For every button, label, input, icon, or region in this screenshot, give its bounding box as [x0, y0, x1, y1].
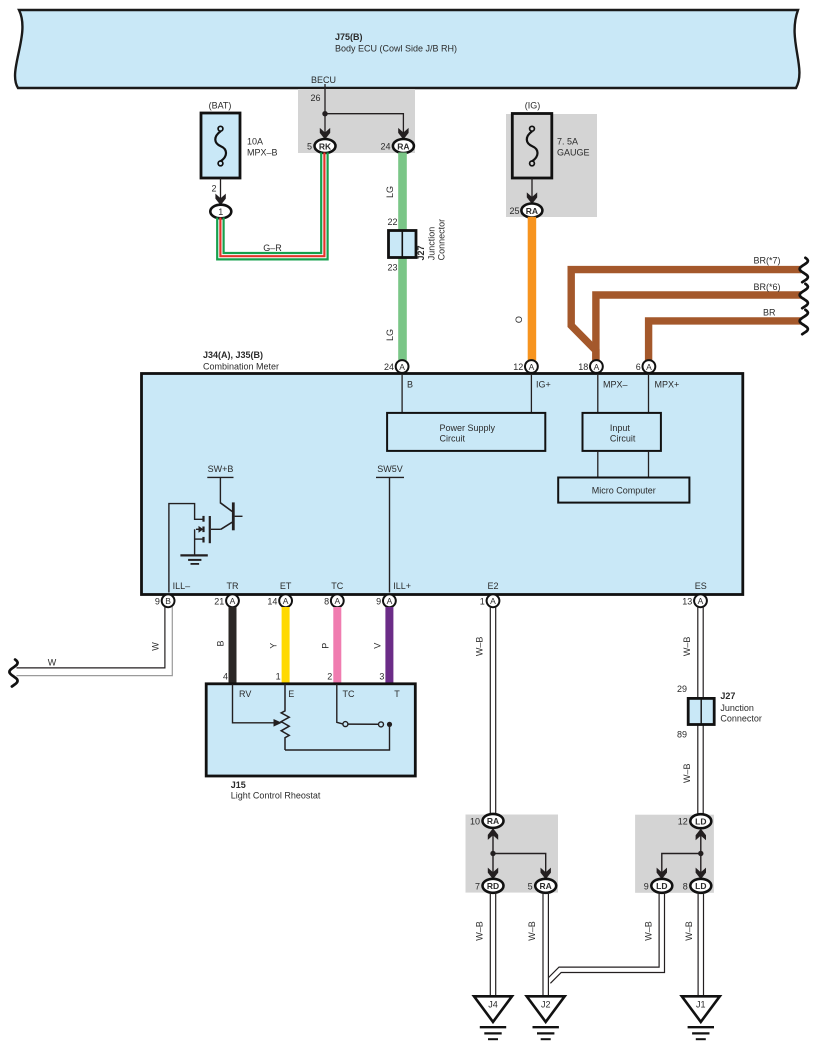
wire W-B (8 LD to J1)	[698, 892, 703, 996]
svg-text:21: 21	[214, 596, 224, 606]
pin 1 label J15	[276, 672, 281, 682]
wire RV to wiper	[233, 684, 275, 723]
svg-text:W–B: W–B	[474, 921, 484, 941]
svg-text:12: 12	[513, 362, 523, 372]
arrow down to 9 LD	[657, 868, 667, 880]
svg-text:A: A	[334, 596, 340, 606]
ground J2	[527, 996, 565, 1039]
svg-text:W–B: W–B	[527, 921, 537, 941]
net label E	[288, 689, 294, 699]
svg-text:5: 5	[528, 881, 533, 891]
gray box (E2 splice)	[466, 815, 559, 893]
junction connector J27 (mid)	[389, 231, 417, 258]
svg-text:Junction: Junction	[720, 703, 754, 713]
ECU band J75(B)	[15, 10, 799, 88]
svg-text:J27: J27	[416, 245, 426, 260]
wire SW5V to ILL+	[389, 477, 391, 592]
svg-text:A: A	[230, 596, 236, 606]
break squiggle BR(*7)	[800, 258, 808, 282]
svg-text:RK: RK	[319, 141, 332, 151]
svg-text:RD: RD	[487, 881, 499, 891]
transistor Q (MOSFET)	[195, 516, 210, 543]
svg-text:25: 25	[509, 206, 519, 216]
pin 9 LD oval	[644, 879, 673, 893]
pin 9 A circle (ILL+)	[376, 594, 396, 607]
label J27 (ES)	[720, 691, 762, 723]
wire splice ES	[662, 829, 701, 879]
arrow up (E2 splice)	[488, 828, 498, 840]
svg-text:RV: RV	[239, 689, 251, 699]
pin 8 A circle	[324, 594, 344, 607]
arrow up (ES splice)	[696, 829, 706, 841]
label BR(*7)	[753, 255, 780, 265]
label J75(B) Body ECU	[335, 32, 457, 54]
pin 12 LD oval	[678, 814, 712, 828]
label O	[514, 316, 524, 323]
svg-text:RA: RA	[397, 141, 409, 151]
wire pin18 to Input Circuit	[597, 375, 599, 413]
wire W (ILL- white)	[17, 607, 173, 676]
wire resistor bottom to T	[285, 727, 390, 751]
label LG lower	[385, 329, 395, 341]
value 10A MPX-B	[247, 137, 278, 158]
net label TC	[331, 581, 343, 591]
svg-text:18: 18	[578, 362, 588, 372]
svg-text:29: 29	[677, 684, 687, 694]
label Junction Connector rotated	[427, 219, 447, 261]
svg-text:24: 24	[380, 142, 390, 152]
net label ES	[695, 581, 707, 591]
svg-text:SW+B: SW+B	[208, 464, 234, 474]
svg-text:LD: LD	[695, 817, 706, 827]
wire BECU down	[324, 84, 326, 114]
arrow into RA	[398, 128, 408, 140]
junction dot (ES splice)	[698, 851, 703, 856]
svg-text:Body ECU (Cowl Side J/B RH): Body ECU (Cowl Side J/B RH)	[335, 44, 457, 54]
svg-text:ES: ES	[695, 581, 707, 591]
svg-text:IG+: IG+	[536, 380, 551, 390]
svg-text:Light Control Rheostat: Light Control Rheostat	[231, 790, 321, 800]
pin 22 label	[387, 217, 397, 227]
svg-text:1: 1	[218, 207, 223, 217]
svg-text:E2: E2	[487, 581, 498, 591]
value 7.5A GAUGE	[557, 137, 590, 158]
svg-text:26: 26	[310, 93, 320, 103]
label W horizontal	[48, 658, 57, 668]
svg-text:ET: ET	[280, 581, 292, 591]
break squiggle W	[9, 660, 17, 687]
arrow into pin 1	[215, 194, 225, 206]
resistor R (rheostat element)	[281, 684, 289, 750]
svg-text:TR: TR	[227, 581, 239, 591]
wire W-B (9 LD to J2)	[549, 892, 665, 983]
svg-text:A: A	[529, 362, 535, 372]
switch blade	[348, 723, 379, 725]
wire pin24 to Power Supply	[401, 375, 403, 413]
svg-text:BECU: BECU	[311, 75, 336, 85]
pin 1 A circle (E2)	[480, 594, 500, 607]
svg-text:G–R: G–R	[263, 243, 282, 253]
pin 14 A circle	[267, 594, 292, 607]
svg-text:10A: 10A	[247, 137, 263, 147]
pin 4 label J15	[223, 672, 228, 682]
svg-text:7. 5A: 7. 5A	[557, 137, 578, 147]
svg-text:P: P	[320, 643, 330, 649]
wire TC to switch	[337, 684, 343, 724]
pin 7 RD oval	[475, 879, 504, 893]
svg-text:SW5V: SW5V	[377, 464, 403, 474]
svg-text:A: A	[646, 362, 652, 372]
svg-text:24: 24	[384, 362, 394, 372]
label (IG)	[525, 101, 541, 111]
pin 5 RA oval	[528, 879, 557, 893]
label BR(*6)	[753, 282, 780, 292]
wire down to RK	[324, 114, 326, 140]
wire BR(*6)	[596, 295, 801, 361]
label W-B (J2)	[527, 921, 537, 941]
wire BR(*7)	[571, 270, 801, 361]
svg-text:5: 5	[307, 142, 312, 152]
svg-text:LG: LG	[385, 329, 395, 341]
svg-text:W–B: W–B	[684, 921, 694, 941]
combination meter box	[142, 374, 743, 595]
rheostat J15 box	[206, 684, 415, 776]
svg-text:J27: J27	[720, 691, 735, 701]
pin 10 RA oval	[470, 814, 504, 828]
svg-text:ILL+: ILL+	[393, 581, 411, 591]
fuse 10A MPX-B box	[201, 113, 240, 178]
svg-text:1: 1	[480, 596, 485, 606]
wire fuse to pin 2	[220, 178, 222, 205]
svg-text:J1: J1	[696, 999, 706, 1009]
pin 24 A circle	[384, 360, 409, 373]
wire branch to RA	[325, 114, 403, 140]
svg-text:Connector: Connector	[720, 713, 762, 723]
wire LG (RA to meter pin 24)	[398, 153, 407, 361]
svg-text:GAUGE: GAUGE	[557, 148, 590, 158]
wire G-R (red core)	[220, 153, 324, 257]
label P wire	[320, 643, 330, 649]
fuse MPX-B (BAT) label	[209, 101, 232, 111]
pin 8 LD oval	[683, 879, 712, 893]
break squiggle BR(*6)	[800, 284, 808, 308]
svg-text:4: 4	[223, 672, 228, 682]
net label B	[407, 380, 413, 390]
arrow down to 8 LD	[696, 868, 706, 880]
net label RV	[239, 689, 251, 699]
svg-text:Micro Computer: Micro Computer	[592, 486, 656, 496]
svg-text:(IG): (IG)	[525, 101, 541, 111]
svg-text:B: B	[216, 640, 226, 646]
pin 29 label	[677, 684, 687, 694]
Power Supply Circuit box	[387, 413, 545, 451]
switch contact left	[343, 722, 348, 727]
pin 89 label	[677, 730, 687, 740]
pin 21 A circle	[214, 594, 239, 607]
wire MOSFET source to ground	[194, 529, 196, 555]
pin 3 label J15	[379, 672, 384, 682]
switch contact right	[379, 722, 384, 727]
svg-text:W–B: W–B	[643, 921, 653, 941]
net label E2	[487, 581, 498, 591]
transistor Q (BJT)	[220, 502, 242, 530]
net label ET	[280, 581, 292, 591]
arrow into 25 RA	[527, 192, 537, 204]
svg-text:J2: J2	[541, 999, 551, 1009]
wire G-R (green outer)	[217, 153, 327, 260]
wire W-B (E2 down)	[490, 607, 495, 815]
net label IG+	[536, 380, 551, 390]
wire splice E2	[493, 829, 546, 879]
wire pin12 to Power Supply	[530, 375, 532, 413]
junction dot (E2 splice)	[490, 851, 495, 856]
label W-B (ES upper)	[682, 637, 692, 657]
svg-text:1: 1	[276, 672, 281, 682]
node SW+B	[207, 464, 233, 478]
svg-text:2: 2	[327, 672, 332, 682]
label V wire	[373, 643, 383, 649]
svg-text:BR(*7): BR(*7)	[753, 255, 780, 265]
svg-text:12: 12	[678, 817, 688, 827]
wire BR	[649, 321, 801, 361]
svg-text:Circuit: Circuit	[440, 433, 466, 443]
net label TC (J15)	[343, 689, 355, 699]
svg-text:W: W	[48, 658, 57, 668]
svg-text:E: E	[288, 689, 294, 699]
label LG upper	[385, 186, 395, 198]
label Y wire	[269, 643, 279, 649]
svg-text:Y: Y	[269, 643, 279, 649]
wire Y (yellow)	[282, 607, 290, 685]
svg-text:O: O	[514, 316, 524, 323]
svg-text:A: A	[594, 362, 600, 372]
pin 23 label	[387, 263, 397, 273]
svg-text:6: 6	[636, 362, 641, 372]
svg-text:BR: BR	[763, 308, 776, 318]
svg-text:22: 22	[387, 217, 397, 227]
ground J4	[474, 996, 512, 1039]
pin 13 A circle (ES)	[682, 594, 707, 607]
svg-text:Connector: Connector	[437, 219, 447, 261]
svg-text:7: 7	[475, 881, 480, 891]
svg-text:Power Supply: Power Supply	[440, 423, 496, 433]
svg-text:13: 13	[682, 596, 692, 606]
svg-text:Combination Meter: Combination Meter	[203, 362, 279, 372]
label J27 rotated	[416, 245, 426, 260]
svg-text:A: A	[698, 596, 704, 606]
junction connector J27 (ES)	[688, 698, 714, 724]
wire P (pink)	[333, 607, 341, 685]
junction dot	[322, 111, 327, 116]
svg-text:A: A	[283, 596, 289, 606]
svg-text:A: A	[490, 596, 496, 606]
svg-text:TC: TC	[343, 689, 355, 699]
svg-text:W–B: W–B	[682, 763, 692, 783]
svg-text:3: 3	[379, 672, 384, 682]
svg-text:B: B	[407, 380, 413, 390]
svg-text:Junction: Junction	[427, 227, 437, 261]
svg-text:LG: LG	[385, 186, 395, 198]
svg-text:ILL–: ILL–	[173, 581, 191, 591]
ground J1	[682, 996, 720, 1039]
svg-text:T: T	[394, 689, 400, 699]
svg-text:RA: RA	[540, 881, 552, 891]
net label MPX-	[603, 380, 628, 390]
svg-text:9: 9	[155, 596, 160, 606]
svg-text:J75(B): J75(B)	[335, 32, 363, 42]
svg-text:89: 89	[677, 730, 687, 740]
svg-text:W–B: W–B	[475, 637, 485, 657]
svg-text:TC: TC	[331, 581, 343, 591]
pin 1 oval	[210, 205, 231, 219]
svg-text:J4: J4	[488, 999, 498, 1009]
arrow into RK	[320, 128, 330, 140]
svg-text:(BAT): (BAT)	[209, 101, 232, 111]
label W-B (E2)	[475, 637, 485, 657]
arrow down to 7 RD	[488, 868, 498, 880]
svg-text:10: 10	[470, 816, 480, 826]
ground (meter internal)	[180, 555, 207, 564]
svg-text:W: W	[151, 642, 161, 651]
Micro Computer box	[558, 478, 689, 503]
pin 24 RA oval	[380, 139, 413, 153]
svg-text:LD: LD	[695, 881, 706, 891]
pin 6 A circle	[636, 360, 656, 373]
wire W-B (5 RA to J2)	[543, 892, 548, 996]
wire W-B (ES down)	[698, 607, 703, 815]
label W-B (ES lower)	[682, 763, 692, 783]
svg-text:Input: Input	[610, 423, 631, 433]
wire SW+B to transistor	[219, 477, 221, 503]
svg-text:MPX+: MPX+	[655, 380, 680, 390]
wire Input to Micro (right)	[648, 451, 650, 478]
gray box (ES splice)	[635, 815, 714, 893]
label B wire	[216, 640, 226, 646]
svg-text:8: 8	[683, 881, 688, 891]
svg-text:RA: RA	[487, 816, 499, 826]
label W-B (J4)	[474, 921, 484, 941]
svg-text:23: 23	[387, 263, 397, 273]
node BECU	[311, 75, 336, 85]
svg-text:J15: J15	[231, 780, 246, 790]
fuse 7.5A GAUGE box	[512, 114, 552, 179]
label W-B (9 LD)	[643, 921, 653, 941]
Input Circuit box	[583, 413, 661, 451]
node SW5V	[376, 464, 404, 478]
junction dot T	[387, 722, 392, 727]
net label T	[394, 689, 400, 699]
wire B (black)	[229, 607, 237, 685]
label W vertical	[151, 642, 161, 651]
svg-text:9: 9	[376, 596, 381, 606]
wire BJT emitter to MOSFET gate	[211, 528, 221, 530]
svg-text:V: V	[373, 643, 383, 649]
pin 26 label	[310, 93, 320, 103]
wire W-B (RD to J4)	[490, 892, 495, 996]
gray box (IG)	[506, 114, 597, 217]
label W-B (J1)	[684, 921, 694, 941]
pin 9 B circle	[155, 594, 175, 607]
svg-text:B: B	[165, 596, 171, 606]
pin 2 label J15	[327, 672, 332, 682]
label G-R	[263, 243, 282, 253]
net label MPX+	[655, 380, 680, 390]
net label ILL+	[393, 581, 411, 591]
wiper arrowhead	[274, 719, 282, 727]
svg-text:9: 9	[644, 881, 649, 891]
svg-text:RA: RA	[526, 206, 538, 216]
pin 18 A circle	[578, 360, 603, 373]
svg-text:Circuit: Circuit	[610, 433, 636, 443]
wire Input to Micro (left)	[597, 451, 599, 478]
wire O (orange)	[528, 217, 537, 361]
gray connector box (ECU outputs)	[298, 89, 415, 153]
svg-text:W–B: W–B	[682, 637, 692, 657]
pin 25 RA oval	[509, 204, 542, 218]
arrow down to 5 RA	[541, 868, 551, 880]
svg-text:MPX–: MPX–	[603, 380, 628, 390]
wire fuse to 25	[531, 178, 533, 204]
pin 12 A circle	[513, 360, 538, 373]
svg-text:14: 14	[267, 596, 277, 606]
wire V (violet)	[385, 607, 393, 685]
label J15	[231, 780, 321, 801]
label BR	[763, 308, 776, 318]
svg-text:BR(*6): BR(*6)	[753, 282, 780, 292]
svg-text:2: 2	[211, 184, 216, 194]
net label TR	[227, 581, 239, 591]
svg-text:A: A	[399, 362, 405, 372]
break squiggle BR	[800, 310, 808, 334]
svg-text:8: 8	[324, 596, 329, 606]
wire pin6 to Input Circuit	[648, 375, 650, 413]
combination meter label	[203, 350, 279, 372]
svg-text:A: A	[387, 596, 393, 606]
pin 2 label	[211, 184, 216, 194]
svg-text:LD: LD	[656, 881, 667, 891]
net label ILL-	[173, 581, 191, 591]
wire G-R (green inner)	[224, 153, 322, 254]
pin 5 RK oval	[307, 139, 336, 153]
svg-text:MPX–B: MPX–B	[247, 148, 278, 158]
wire MOSFET drain to ILL-	[169, 504, 204, 593]
svg-text:J34(A), J35(B): J34(A), J35(B)	[203, 350, 263, 360]
